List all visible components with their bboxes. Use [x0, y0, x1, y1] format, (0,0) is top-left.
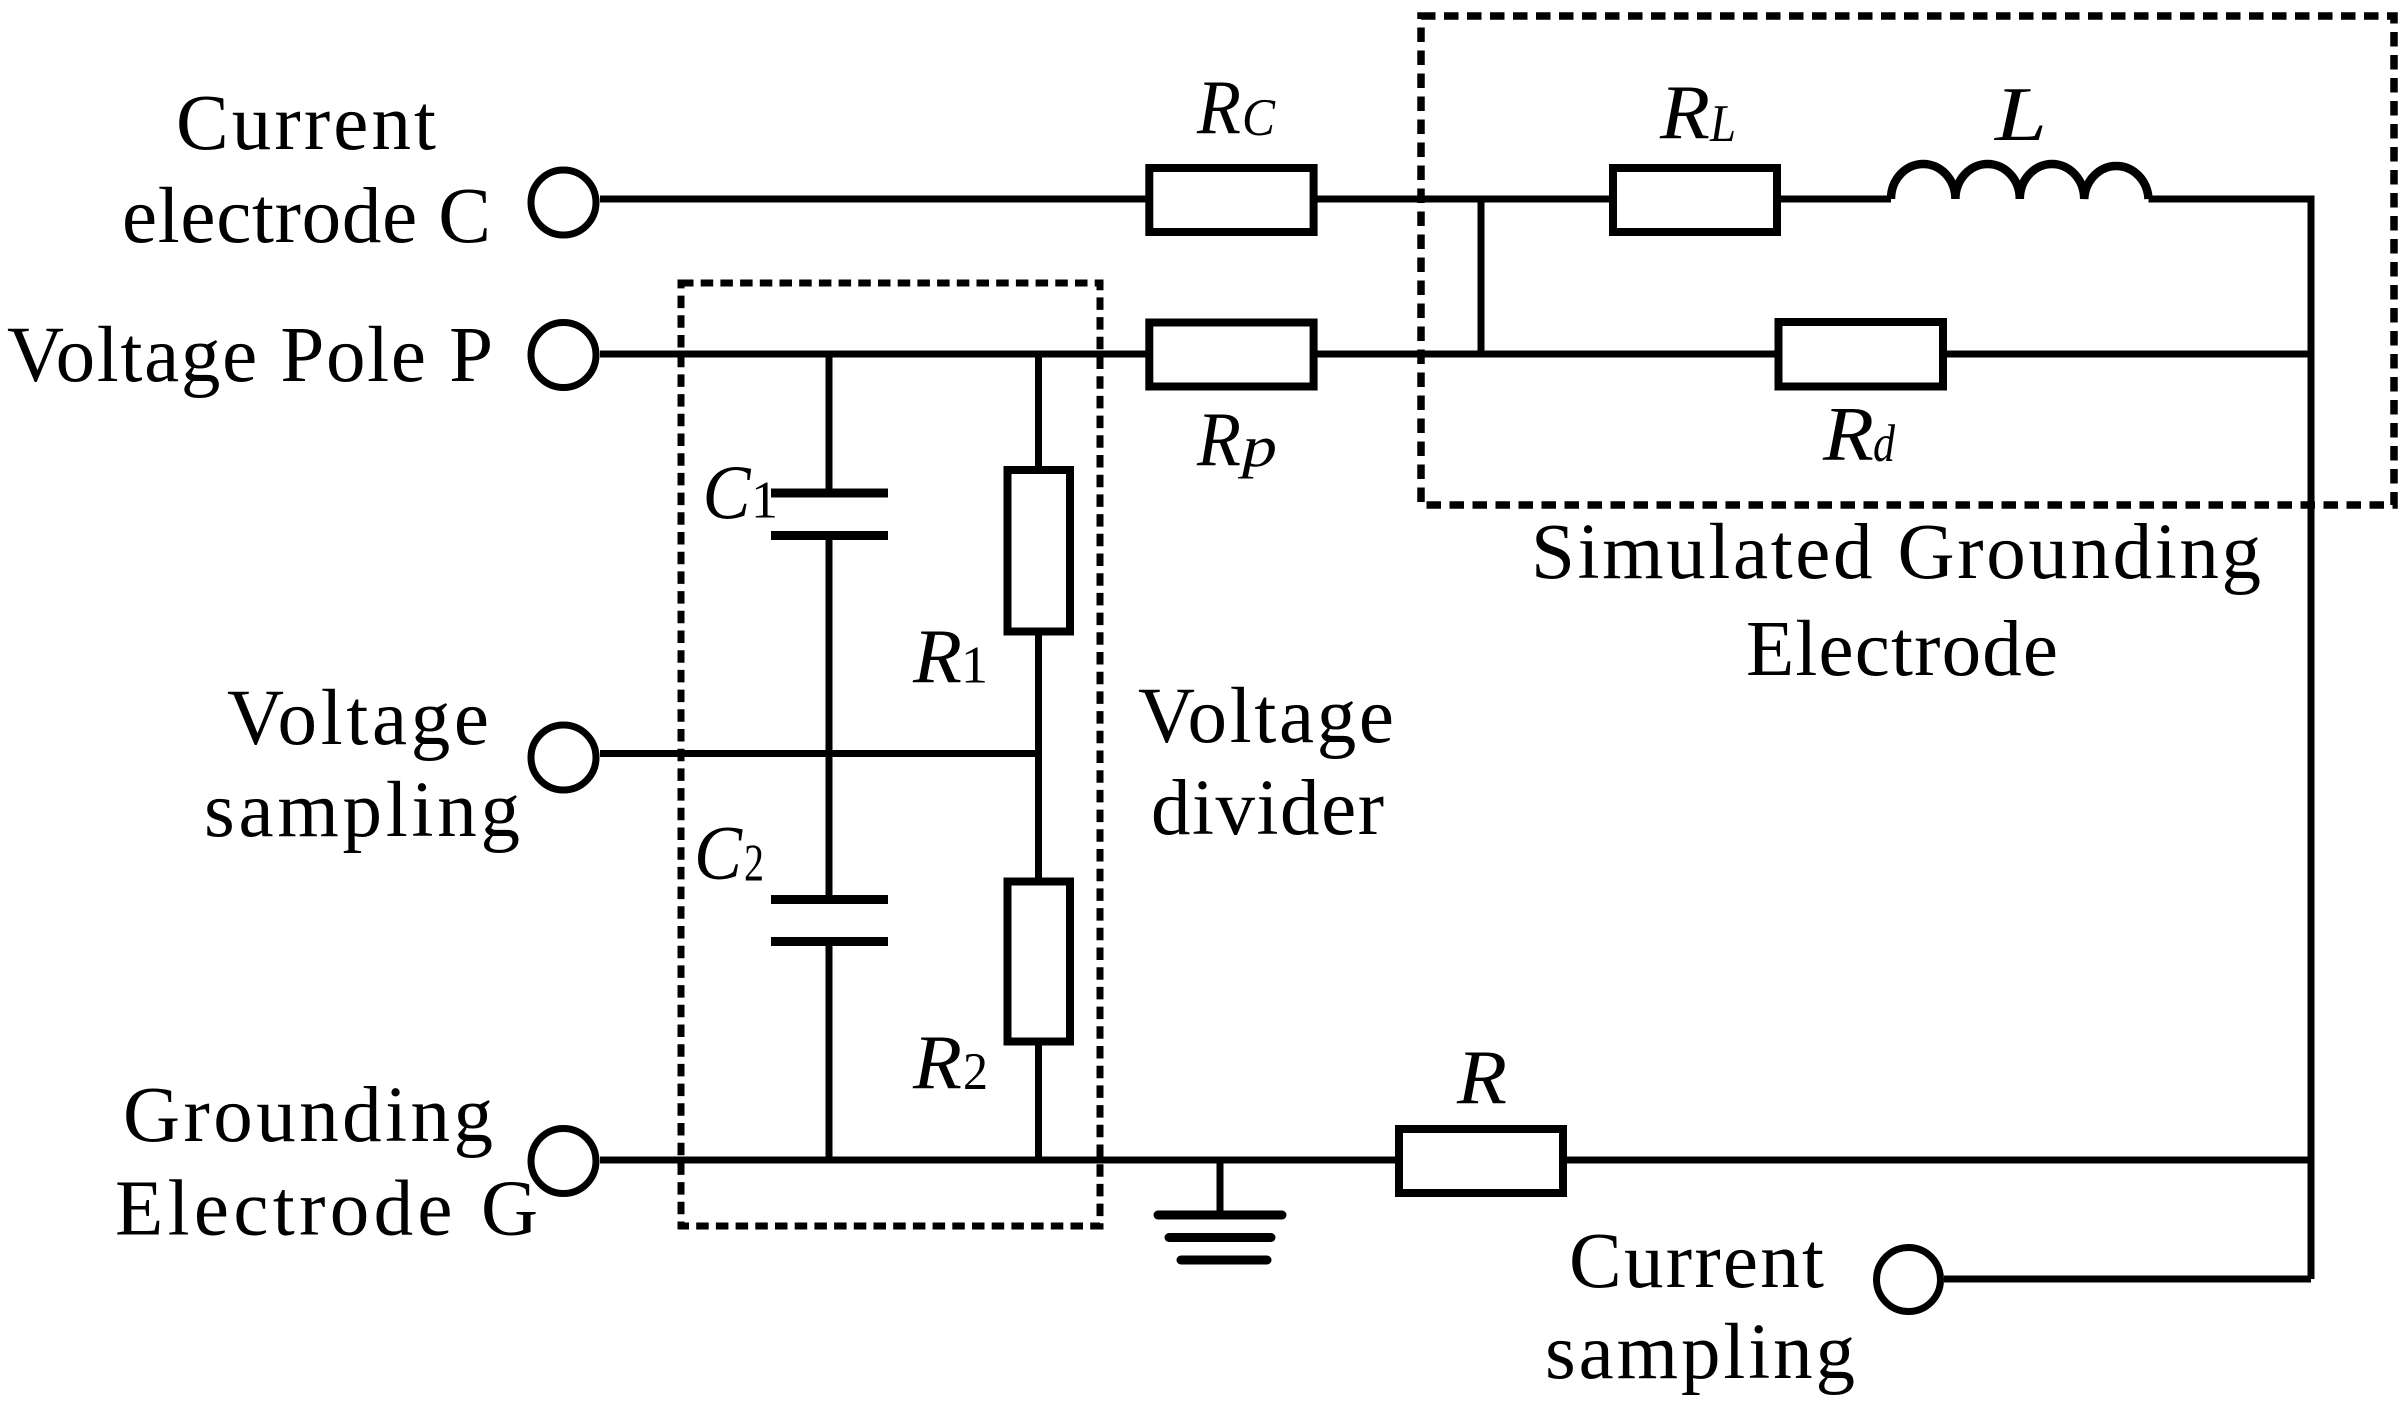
terminal circle: Current electrode C — [531, 170, 596, 235]
svg-text:L: L — [1709, 95, 1736, 153]
svg-text:C: C — [703, 450, 753, 536]
terminal circle: Current sampling — [1877, 1248, 1941, 1312]
resistor RL box — [1613, 168, 1777, 232]
svg-text:Grounding: Grounding — [123, 1072, 493, 1159]
svg-text:R: R — [1196, 64, 1241, 150]
svg-text:Voltage Pole P: Voltage Pole P — [7, 312, 493, 399]
ground symbol stub — [1217, 1160, 1224, 1211]
svg-text:R: R — [1456, 1034, 1507, 1120]
capacitor C2 plates — [771, 895, 888, 904]
wire: R1/R2 branch vertical — [1035, 354, 1042, 1160]
wire: right vertical bus — [2308, 196, 2315, 1280]
svg-text:R: R — [912, 613, 962, 699]
svg-text:sampling: sampling — [204, 767, 520, 854]
wire: C1 branch vertical — [826, 354, 833, 489]
resistor Rp box — [1149, 323, 1313, 387]
svg-text:2: 2 — [963, 1043, 988, 1101]
resistor R2 box — [1008, 882, 1071, 1042]
wire: current sampling line — [1944, 1276, 2311, 1283]
svg-text:divider: divider — [1151, 765, 1384, 852]
wire: junction vertical between C line and P line — [1478, 199, 1485, 354]
svg-text:C: C — [694, 810, 744, 896]
wire: C line after inductor — [2149, 196, 2312, 203]
wire: voltage sampling line — [600, 750, 1039, 757]
svg-text:Electrode: Electrode — [1746, 606, 2058, 693]
ground symbol bar 3 — [1181, 1256, 1267, 1265]
wire: current electrode C line — [600, 196, 1891, 203]
svg-text:1: 1 — [751, 472, 778, 530]
svg-text:1: 1 — [961, 637, 988, 695]
svg-text:2: 2 — [744, 835, 764, 893]
resistor RC box — [1149, 168, 1313, 232]
svg-text:R: R — [912, 1019, 962, 1105]
wire: C2 branch vertical — [826, 754, 833, 896]
dashed box: voltage divider — [681, 283, 1100, 1226]
wire: C2 to ground line vertical — [826, 946, 833, 1160]
resistor R box — [1399, 1129, 1563, 1193]
wire: C1 to sampling line vertical — [826, 540, 833, 754]
svg-text:d: d — [1873, 415, 1895, 473]
svg-text:C: C — [1242, 89, 1276, 147]
ground symbol bar 2 — [1169, 1233, 1271, 1242]
svg-text:Voltage: Voltage — [227, 675, 489, 762]
svg-text:Voltage: Voltage — [1138, 673, 1394, 760]
svg-text:R: R — [1659, 69, 1710, 155]
wire: grounding electrode G line — [600, 1157, 2311, 1164]
ground symbol bar 1 — [1158, 1211, 1282, 1220]
svg-text:Current: Current — [176, 80, 436, 167]
capacitor C1 plates — [771, 489, 888, 498]
svg-text:sampling: sampling — [1545, 1309, 1855, 1396]
terminal circle: Voltage Pole P — [531, 323, 596, 388]
resistor R1 box — [1008, 470, 1071, 632]
svg-text:L: L — [1994, 71, 2047, 157]
terminal circle: Voltage sampling — [531, 725, 596, 790]
svg-text:Current: Current — [1569, 1218, 1824, 1305]
svg-text:R: R — [1196, 396, 1241, 482]
svg-text:R: R — [1822, 391, 1874, 477]
wire: voltage pole P line — [600, 351, 2311, 358]
svg-text:electrode C: electrode C — [122, 173, 491, 260]
svg-text:p: p — [1237, 414, 1277, 479]
terminal circle: Grounding Electrode G — [531, 1129, 596, 1194]
resistor Rd box — [1779, 322, 1944, 387]
dashed box: simulated grounding electrode — [1421, 16, 2394, 505]
inductor L coil — [1891, 164, 2149, 199]
